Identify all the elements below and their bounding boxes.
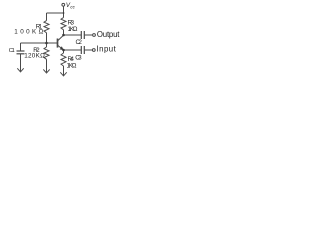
svg-text:120KΩ: 120KΩ xyxy=(24,53,45,60)
svg-text:1KΩ: 1KΩ xyxy=(68,26,78,33)
svg-text:C3: C3 xyxy=(75,55,82,62)
svg-text:C2: C2 xyxy=(76,39,83,46)
svg-text:Input: Input xyxy=(97,45,117,54)
svg-text:Output: Output xyxy=(97,30,120,39)
svg-text:C1: C1 xyxy=(9,48,15,54)
svg-text:1KΩ: 1KΩ xyxy=(67,62,77,69)
